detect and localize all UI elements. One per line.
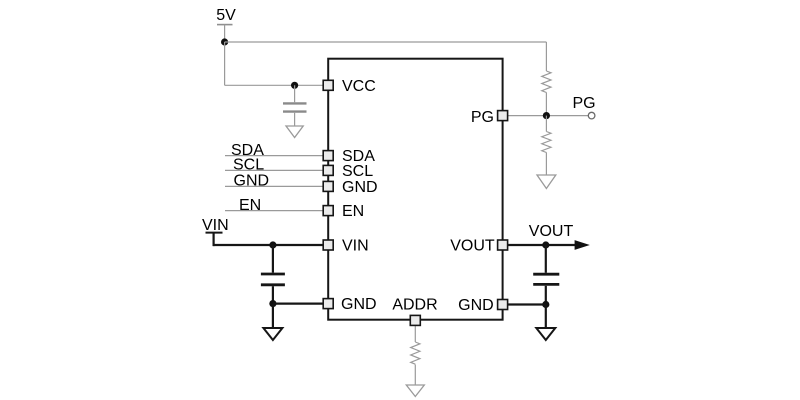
svg-text:EN: EN (342, 203, 364, 220)
junction 5V (221, 38, 228, 45)
capacitor VOUT output (533, 245, 559, 305)
node EN label (239, 197, 261, 214)
svg-text:PG: PG (471, 109, 494, 126)
svg-text:VOUT: VOUT (450, 238, 495, 255)
ground VOUT cap (536, 305, 555, 341)
pin EN (323, 203, 364, 220)
svg-text:ADDR: ADDR (392, 297, 437, 314)
wire SCL (225, 169, 323, 171)
wire cap to GND pin (273, 303, 323, 305)
node SDA label (231, 142, 264, 159)
pin VIN (323, 238, 368, 255)
pin PG (471, 109, 508, 126)
svg-text:GND: GND (341, 296, 377, 313)
wire GND (225, 185, 323, 187)
ground VIN cap (263, 304, 282, 340)
wire PG pin to node (508, 115, 589, 117)
node PG output terminal (572, 95, 595, 119)
node VOUT arrow terminal (529, 223, 590, 250)
node GND label left (234, 173, 270, 190)
svg-text:SCL: SCL (342, 163, 373, 180)
pin VCC (323, 78, 376, 95)
junction VOUT cap bottom (542, 301, 549, 308)
ground VCC cap (286, 126, 303, 138)
svg-text:VIN: VIN (342, 238, 369, 255)
wire SDA (225, 155, 323, 157)
capacitor VCC bypass (283, 85, 307, 126)
junction VOUT cap top (542, 241, 549, 248)
svg-text:GND: GND (234, 173, 270, 190)
wire to VCC pin (225, 84, 323, 86)
svg-text:5V: 5V (216, 7, 236, 24)
resistor ADDR (411, 326, 420, 386)
node VIN terminal (202, 217, 229, 246)
pin GND upper left (323, 179, 377, 196)
pin SDA (323, 148, 375, 165)
ground PG divider (537, 175, 556, 189)
wire 5V right vertical drop (545, 42, 547, 71)
svg-text:VOUT: VOUT (529, 223, 574, 240)
svg-text:EN: EN (239, 197, 261, 214)
ground ADDR (406, 385, 424, 397)
wire 5V left vertical drop (224, 42, 226, 85)
wire GND pin right to cap (508, 303, 546, 305)
pin SCL (323, 163, 373, 180)
pin GND lower right (458, 297, 507, 314)
capacitor VIN input (261, 245, 285, 304)
pin ADDR (392, 297, 437, 326)
svg-text:SCL: SCL (233, 157, 264, 174)
svg-text:PG: PG (572, 95, 595, 112)
IC U1 body (328, 59, 502, 320)
svg-text:GND: GND (342, 179, 378, 196)
wire VOUT (508, 244, 577, 246)
wire VIN (213, 244, 323, 246)
pin VOUT (450, 238, 507, 255)
svg-text:VIN: VIN (202, 217, 229, 234)
wire EN (225, 210, 323, 212)
junction VCC cap (291, 82, 298, 89)
junction PG (543, 112, 550, 119)
node 5V terminal (216, 7, 236, 42)
svg-text:VCC: VCC (342, 78, 376, 95)
pin GND lower left (323, 296, 376, 313)
junction VIN cap top (269, 241, 276, 248)
junction VIN cap bottom (269, 300, 276, 307)
svg-text:GND: GND (458, 297, 494, 314)
resistor pull-up PG (542, 71, 551, 116)
resistor pull-down PG (542, 116, 551, 175)
wire 5V top horizontal (225, 41, 547, 43)
node SCL label (233, 157, 264, 174)
